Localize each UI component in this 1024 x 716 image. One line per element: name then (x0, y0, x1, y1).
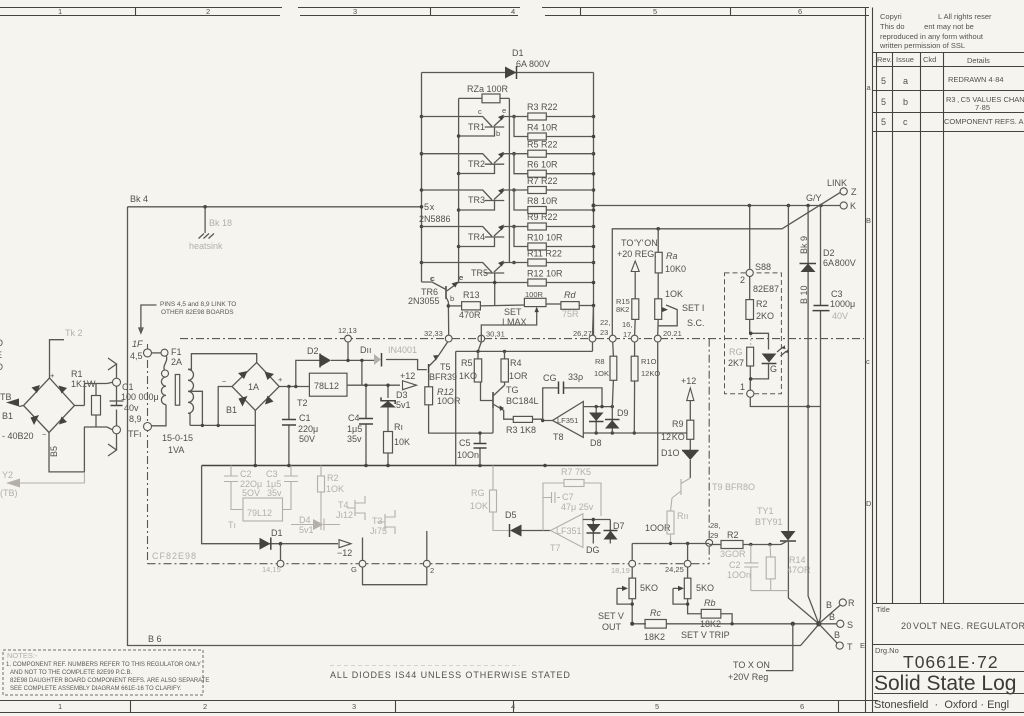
resistor R12 100R (425, 387, 461, 406)
svg-text:OUT: OUT (602, 622, 622, 632)
svg-text:G: G (351, 565, 357, 574)
svg-text:10On: 10On (457, 450, 479, 460)
faint bleed line (330, 665, 520, 667)
diode D7 (604, 520, 625, 544)
svg-text:TO 'Y' ON: TO 'Y' ON (621, 238, 658, 248)
pot SET I MAX 100R (481, 290, 561, 342)
svg-text:T0661E·72: T0661E·72 (903, 652, 999, 672)
label 40B20 (2, 431, 34, 441)
svg-text:3GOR: 3GOR (720, 549, 746, 559)
svg-text:TB: TB (0, 392, 12, 402)
svg-text:28,: 28, (710, 521, 720, 530)
svg-text:R4: R4 (510, 358, 522, 368)
svg-text:D: D (866, 499, 872, 508)
svg-text:75R: 75R (562, 309, 579, 319)
svg-text:5 x: 5 x (424, 202, 435, 212)
resistor R6 10R (527, 160, 595, 178)
svg-text:R2: R2 (727, 530, 739, 540)
svg-text:100 000μ: 100 000μ (121, 392, 159, 402)
svg-text:1A: 1A (248, 382, 259, 392)
svg-text:S: S (847, 620, 853, 630)
svg-text:5KO: 5KO (696, 583, 714, 593)
svg-text:b: b (903, 97, 908, 107)
fuse F1 2A (152, 347, 183, 377)
svg-text:40V: 40V (832, 311, 848, 321)
svg-text:32,33: 32,33 (424, 329, 443, 338)
node 26,27 (573, 329, 596, 342)
thyristor TY1 BTY91 (755, 506, 819, 624)
svg-text:ent may not be: ent may not be (920, 22, 974, 31)
copyright notice (879, 12, 992, 50)
wire T8 output top (583, 405, 614, 408)
svg-text:22,: 22, (600, 318, 610, 327)
svg-text:CF82E98: CF82E98 (152, 551, 197, 561)
svg-text:1OK: 1OK (665, 289, 683, 299)
transformer secondary (188, 354, 257, 426)
wire G to 2 bottom loop (363, 567, 427, 585)
svg-text:B: B (826, 600, 832, 610)
resistor R2 10K (ghost) (318, 466, 345, 531)
wire 26,27 drop (593, 306, 594, 336)
diode D6 (586, 520, 601, 556)
svg-text:SET I: SET I (682, 303, 704, 313)
svg-text:Dıı: Dıı (360, 345, 372, 355)
bottom border (0, 701, 1024, 713)
svg-text:16,: 16, (622, 320, 632, 329)
svg-text:1OK: 1OK (594, 369, 609, 378)
resistor R3 1K8 (506, 416, 553, 435)
svg-text:50V: 50V (299, 434, 315, 444)
op-amp T7 LF351 (ghost) (550, 514, 583, 553)
svg-text:TFı: TFı (128, 429, 142, 439)
svg-text:6: 6 (798, 7, 802, 16)
transistor T3 J175 (ghost) (370, 510, 395, 536)
svg-text:O: O (0, 362, 3, 372)
wire 20,21 drop to rail corner (657, 342, 659, 466)
node K terminal (840, 201, 856, 211)
svg-text:R12 10R: R12 10R (527, 269, 563, 279)
node T terminal (819, 624, 853, 652)
svg-text:T7: T7 (550, 543, 561, 553)
svg-text:c: c (478, 107, 482, 116)
svg-text:C3: C3 (266, 469, 278, 479)
svg-text:4: 4 (511, 7, 515, 16)
resistor R8 10R (527, 196, 595, 214)
wire B10 drop to star (808, 520, 819, 624)
svg-text:TR1: TR1 (468, 122, 485, 132)
transistor TR6 2N3055 (408, 273, 463, 306)
svg-text:CG: CG (543, 373, 557, 383)
label CF82E98 (ghost) (152, 551, 197, 561)
svg-text:Rb: Rb (704, 598, 716, 608)
svg-text:220μ: 220μ (298, 424, 318, 434)
svg-text:4,5: 4,5 (130, 351, 143, 361)
svg-text:+: + (278, 375, 283, 384)
svg-text:C1: C1 (122, 382, 134, 392)
svg-text:1: 1 (58, 702, 62, 711)
svg-text:Stonesfield · Oxford · Engl: Stonesfield · Oxford · Engl (874, 699, 1009, 711)
svg-text:T9 BFR8O: T9 BFR8O (712, 482, 755, 492)
svg-text:2KO: 2KO (756, 311, 774, 321)
svg-text:29: 29 (710, 531, 718, 540)
wire C3/B10 drop to star (819, 407, 821, 625)
svg-text:c: c (866, 357, 870, 366)
svg-text:R1: R1 (71, 369, 83, 379)
svg-text:35v: 35v (347, 434, 362, 444)
svg-text:1OK: 1OK (326, 484, 344, 494)
svg-text:D1: D1 (271, 528, 283, 538)
svg-text:Jı12: Jı12 (336, 510, 353, 520)
svg-text:2: 2 (740, 275, 745, 285)
svg-text:heatsink: heatsink (189, 241, 223, 251)
wire T5 collector to 32,33 (437, 342, 448, 359)
transistor T4 J112 (ghost) (336, 496, 365, 520)
resistor R4 10R (527, 123, 595, 141)
svg-text:18K2: 18K2 (644, 632, 665, 642)
label SET V OUT (598, 611, 624, 632)
svg-text:F1: F1 (171, 347, 182, 357)
resistor Rd 75R (561, 290, 595, 319)
svg-text:470R: 470R (459, 310, 481, 320)
svg-text:COMPONENT REFS. ADDED: COMPONENT REFS. ADDED (944, 117, 1024, 126)
wire S88 net drop to star (787, 206, 789, 527)
svg-text:2A: 2A (171, 357, 182, 367)
svg-text:1000μ: 1000μ (830, 299, 855, 309)
label Y2 arrow (faint) (0, 470, 84, 498)
resistor R5 1K0 (459, 351, 482, 382)
svg-text:3: 3 (353, 7, 357, 16)
svg-text:REDRAWN 4·84: REDRAWN 4·84 (948, 75, 1004, 84)
svg-text:OTHER 82E98 BOARDS: OTHER 82E98 BOARDS (161, 309, 234, 316)
svg-text:reproduced in any form without: reproduced in any form without (880, 32, 984, 41)
node 12,13 (338, 326, 357, 342)
node 30,31 (478, 330, 505, 343)
label TO Y ON +20 REG (617, 238, 658, 299)
capacitor C1 220u 50V (282, 387, 318, 466)
svg-text:6A 800V: 6A 800V (823, 258, 856, 268)
capacitor C5 100n (429, 405, 493, 466)
svg-text:Ckd: Ckd (923, 55, 936, 64)
svg-text:BFR39: BFR39 (429, 372, 457, 382)
svg-text:D1O: D1O (661, 448, 680, 458)
svg-text:1: 1 (58, 7, 62, 16)
resistor R11 R22 (518, 249, 594, 267)
board outline bottom edge (148, 563, 710, 565)
svg-text:B: B (866, 216, 871, 225)
svg-text:4: 4 (511, 702, 515, 711)
resistor R10 10R (527, 233, 595, 251)
svg-text:Tı: Tı (228, 520, 236, 530)
diode D11 IN4001 (half faint) (360, 345, 427, 370)
svg-text:C2: C2 (240, 469, 252, 479)
svg-text:Rev.: Rev. (877, 55, 892, 64)
resistor R5 R22 (514, 140, 594, 158)
svg-text:+: + (50, 371, 55, 380)
svg-text:1OOn: 1OOn (727, 570, 751, 580)
svg-text:c: c (903, 117, 908, 127)
capacitor C1 100000u 40v (110, 382, 159, 426)
svg-text:Bk 18: Bk 18 (209, 218, 232, 228)
wire 78L12 output +12 (347, 359, 417, 390)
svg-text:B1: B1 (2, 411, 13, 421)
svg-text:B: B (834, 630, 840, 640)
svg-text:D5: D5 (505, 510, 517, 520)
svg-text:78L12: 78L12 (314, 381, 339, 391)
resistor R12 10R (458, 269, 595, 287)
transistor TR4 (422, 225, 528, 247)
diode D9 (605, 407, 629, 433)
svg-text:BTY91: BTY91 (755, 517, 783, 527)
svg-text:IN4001: IN4001 (388, 345, 417, 355)
svg-text:10K0: 10K0 (665, 264, 686, 274)
svg-text:6A 800V: 6A 800V (516, 59, 550, 69)
regulator 79L12 (ghost) (228, 498, 283, 530)
relay box S88 82E87 with R2 and LED G (725, 206, 790, 398)
op-amp T8 LF351 (553, 402, 584, 443)
wire TR6 collector to 32,33 (447, 304, 451, 335)
capacitor C2 100n (ghost) (727, 545, 758, 591)
top border (0, 7, 869, 16)
svg-text:1VA: 1VA (168, 445, 184, 455)
svg-text:PINS 4,5 and 8,9 LINK TO: PINS 4,5 and 8,9 LINK TO (160, 301, 236, 308)
svg-text:35v: 35v (267, 488, 282, 498)
wire link diagonal (612, 192, 840, 335)
svg-text:20 VOLT NEG. REGULATOR: 20 VOLT NEG. REGULATOR (901, 621, 1024, 631)
svg-text:b: b (496, 129, 500, 138)
label TO X ON +20V Reg (728, 622, 795, 682)
svg-text:D7: D7 (613, 521, 625, 531)
label 15-0-15 1VA (162, 433, 193, 455)
svg-text:L All rights reser: L All rights reser (938, 12, 992, 21)
svg-text:D8: D8 (590, 438, 602, 448)
svg-text:RZa 100R: RZa 100R (467, 84, 509, 94)
svg-text:26,27: 26,27 (573, 329, 592, 338)
svg-text:8K2: 8K2 (616, 305, 629, 314)
svg-text:Tk 2: Tk 2 (65, 328, 83, 338)
svg-text:R14: R14 (789, 555, 806, 565)
transistor T9 BFR80 (ghost) (671, 478, 756, 511)
svg-text:Ra: Ra (666, 251, 678, 261)
regulator 78L12 (309, 373, 347, 396)
board outline 82E99 top edge (chain line) (180, 338, 864, 340)
svg-text:AND NOT TO THE COMPLETE 82E99: AND NOT TO THE COMPLETE 82E99 P.C.B. (10, 670, 132, 676)
svg-text:+12: +12 (400, 371, 415, 381)
svg-text:B: B (829, 612, 835, 622)
svg-text:TY1: TY1 (757, 506, 774, 516)
svg-text:Rc: Rc (650, 608, 661, 618)
diode D2 (296, 346, 377, 387)
svg-text:Title: Title (876, 605, 890, 614)
svg-text:E: E (860, 641, 865, 650)
ground heatsink (189, 234, 223, 252)
wire base drive inner rail (457, 98, 461, 282)
svg-text:S.C.: S.C. (687, 318, 705, 328)
svg-text:R11 R22: R11 R22 (527, 249, 562, 259)
svg-text:This do: This do (880, 22, 905, 31)
svg-text:DG: DG (586, 545, 600, 555)
resistor R1 10K (384, 420, 411, 466)
svg-text:B 6: B 6 (148, 634, 162, 644)
svg-text:47OR: 47OR (787, 565, 811, 575)
capacitor C3 1u5 35v (ghost) (266, 466, 298, 510)
notes box (3, 650, 209, 695)
transistor T5 BFR39 (429, 355, 457, 387)
label SET V TRIP (681, 630, 730, 640)
diode D5 (505, 510, 551, 537)
svg-text:- 40B20: - 40B20 (2, 431, 34, 441)
svg-text:E: E (0, 350, 2, 360)
svg-text:R2: R2 (756, 299, 768, 309)
svg-text:1. COMPONENT REF. NUMBERS REFE: 1. COMPONENT REF. NUMBERS REFER TO THIS … (6, 662, 201, 668)
svg-text:D1: D1 (512, 48, 524, 58)
svg-text:1OR: 1OR (509, 371, 528, 381)
svg-text:T5: T5 (440, 362, 451, 372)
svg-text:5: 5 (653, 7, 657, 16)
svg-text:ALL DIODES IS44 UNLESS OTH: ALL DIODES IS44 UNLESS OTHERWISE STATED (330, 670, 571, 680)
svg-text:K: K (850, 201, 856, 211)
node G (351, 560, 366, 574)
capacitor C7 47u 25v (ghost) (543, 492, 594, 512)
svg-text:33ρ: 33ρ (568, 372, 583, 382)
svg-text:R3 1K8: R3 1K8 (506, 425, 536, 435)
wire T8 output bottom (583, 431, 687, 434)
svg-text:D4: D4 (299, 515, 311, 525)
power +12 arrow to R9 (681, 376, 696, 420)
svg-text:18K2: 18K2 (700, 619, 721, 629)
wire output rail (594, 204, 840, 208)
svg-text:23: 23 (600, 328, 608, 337)
wire bridge top loop (50, 340, 65, 378)
svg-text:C4: C4 (348, 413, 360, 423)
svg-text:T8: T8 (553, 432, 564, 442)
resistor R2 360R (709, 530, 781, 559)
wire 18,19 drop (631, 544, 633, 561)
wire emitter rail (509, 98, 515, 264)
svg-text:+12: +12 (681, 376, 696, 386)
revision table (873, 53, 1024, 604)
resistor R14 470R (ghost) (751, 545, 811, 591)
edge letters (cut off connector labels) (0, 338, 3, 372)
node 18,19 (611, 560, 636, 575)
transformer core (175, 375, 179, 406)
resistor R10 12K0 (631, 342, 660, 433)
zener D4 5v1 (ghost) (291, 515, 340, 535)
svg-text:LF351: LF351 (557, 416, 578, 425)
svg-text:R6 10R: R6 10R (527, 160, 558, 170)
svg-text:e: e (502, 106, 506, 115)
svg-text:R4 10R: R4 10R (527, 123, 558, 133)
svg-text:R13: R13 (463, 290, 480, 300)
svg-text:(TB): (TB) (0, 488, 18, 498)
wire bridge minus leg (218, 387, 232, 426)
wire -12 net with diode D1 (202, 466, 353, 559)
svg-text:a: a (903, 76, 908, 86)
svg-text:2: 2 (206, 7, 210, 16)
resistor R3 R22 (514, 102, 594, 120)
svg-text:C1: C1 (299, 413, 311, 423)
wire bank right rail (592, 73, 596, 336)
svg-text:R: R (848, 598, 855, 608)
svg-text:82E87: 82E87 (753, 284, 779, 294)
svg-text:2: 2 (203, 702, 207, 711)
node star junction (816, 621, 821, 626)
svg-text:6: 6 (800, 702, 804, 711)
transistor T6 BC184L (481, 382, 539, 433)
svg-text:SEE COMPLETE ASSEMBLY DIAGRAM: SEE COMPLETE ASSEMBLY DIAGRAM 661E-16 TO… (10, 686, 182, 692)
diode D8 (589, 407, 604, 448)
svg-text:R9 R22: R9 R22 (527, 212, 558, 222)
note pins link (139, 301, 236, 333)
svg-text:D9: D9 (617, 408, 629, 418)
wire B6 net: left drop and bottom rail (128, 207, 820, 646)
svg-text:47μ 25v: 47μ 25v (561, 502, 594, 512)
wire G stub (362, 538, 364, 561)
svg-text:T4: T4 (338, 500, 349, 510)
svg-text:T2: T2 (297, 398, 308, 408)
wire bank left rail (420, 73, 424, 283)
wire 2 stub (426, 531, 428, 560)
svg-text:5KO: 5KO (640, 583, 658, 593)
node 24,25 (665, 560, 691, 574)
svg-text:30,31: 30,31 (486, 330, 505, 339)
svg-text:BC184L: BC184L (506, 396, 539, 406)
capacitor C6 33p (543, 372, 602, 421)
transistor TR3 (422, 188, 528, 210)
wire bridge bottom to ground rail (254, 410, 256, 465)
resistor R6 10K (ghost) (470, 466, 509, 531)
resistor R9 12K0 (661, 419, 694, 450)
svg-text:LINK: LINK (827, 178, 847, 188)
board outline left edge (147, 344, 149, 564)
resistor R11 100R (645, 511, 689, 544)
svg-text:SET V: SET V (598, 611, 624, 621)
svg-text:G/Y: G/Y (806, 193, 822, 203)
svg-text:5: 5 (881, 117, 886, 127)
svg-text:1μ5: 1μ5 (347, 424, 362, 434)
svg-text:Bk 4: Bk 4 (130, 194, 148, 204)
resistor RZa 100R (459, 84, 510, 103)
node 28,29 (706, 521, 721, 546)
wire 28,29 net (632, 542, 709, 545)
svg-text:C2: C2 (729, 560, 741, 570)
note all diodes (330, 670, 571, 680)
svg-text:Z: Z (851, 187, 857, 197)
svg-text:+20V Reg: +20V Reg (728, 672, 768, 682)
wire Bk9 / diode D2 6A800V / wire B10 (799, 206, 856, 521)
pot 5K0 (SET V TRIP) (673, 567, 714, 614)
resistor R15 8K2 (616, 297, 639, 335)
svg-text:R8: R8 (595, 357, 605, 366)
bridge rectifier B1 40B20 (24, 371, 75, 439)
resistor R7 7K5 (ghost) (543, 467, 601, 531)
resistor Rc 18K2 (644, 608, 666, 642)
svg-text:RG: RG (471, 488, 485, 498)
zener D3 5v1 (380, 384, 411, 421)
svg-text:12,13: 12,13 (338, 326, 357, 335)
node 32,33 (424, 329, 452, 342)
svg-text:R7 R22: R7 R22 (527, 176, 558, 186)
node Z link terminal (827, 178, 857, 197)
resistor R4 10R (501, 351, 528, 385)
node S terminal (829, 612, 853, 630)
wire Bk4 net (128, 194, 422, 207)
svg-text:T3: T3 (372, 516, 383, 526)
label B5 (vertical) (49, 446, 59, 457)
svg-text:−: − (222, 377, 227, 386)
wire T7 output (583, 518, 610, 521)
wire 14,15 drop (280, 544, 282, 561)
resistor Rb 18K2 (700, 598, 734, 629)
